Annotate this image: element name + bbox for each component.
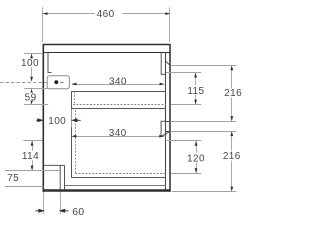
drawer 2 dashed bottom (75, 173, 166, 175)
handle pivot dot (54, 80, 58, 84)
dim 216 upper arrows (230, 66, 233, 71)
drawer 1 box top (71, 91, 166, 93)
dim 216 lower arrows (230, 132, 233, 137)
dim 59 extensions (24, 89, 48, 105)
dim 100 top line (31, 54, 33, 82)
dim 216 upper line (231, 66, 233, 121)
handle element (47, 76, 69, 89)
dim 460 line (43, 13, 170, 15)
back panel groove legs (44, 165, 65, 189)
dim 59 line (31, 89, 33, 104)
dim 340 upper line (72, 84, 164, 86)
svg-text:114: 114 (22, 151, 39, 162)
svg-text:460: 460 (97, 9, 115, 20)
drawer 1 dashed bottom (73, 104, 166, 106)
drawer 2 dashed side panel (75, 110, 77, 174)
drawer 1 front chamfer (166, 61, 170, 65)
drawer 2 box top rail (71, 108, 166, 110)
cabinet top panel (43, 45, 171, 53)
svg-text:100: 100 (48, 116, 66, 127)
drawer 2 front chamfer (162, 131, 171, 136)
svg-text:340: 340 (109, 77, 127, 88)
dim 114 arrows (31, 141, 34, 146)
dim 120 arrows (195, 141, 198, 146)
dim 340 lower arrows (72, 135, 77, 138)
dim 216 lower bottom extension (172, 191, 236, 193)
dim 60 extensions (44, 192, 61, 213)
drawer 1 dashed side panel (74, 91, 76, 104)
dim 59 arrows (30, 89, 32, 93)
dim 340 upper arrows (72, 83, 77, 86)
bottom panel top face line (65, 185, 166, 187)
dim 120 line (196, 141, 198, 173)
svg-text:75: 75 (7, 173, 19, 184)
drawer 2 box bottom (71, 177, 166, 179)
drawer front back face line (165, 53, 167, 190)
dim 115 extensions (166, 73, 201, 105)
svg-text:60: 60 (72, 207, 84, 218)
dim 216 lower top extension (171, 131, 237, 133)
dim 115 arrows (194, 73, 197, 78)
dim 460 arrows (43, 12, 48, 15)
dim 115 line (195, 73, 197, 104)
cabinet right wall (169, 44, 171, 192)
left side panel inner edge (48, 53, 52, 73)
svg-text:120: 120 (187, 153, 205, 164)
drawer 1 front bottom edge (166, 121, 171, 123)
drawer 1 handle channel (161, 53, 166, 75)
dim 120 extensions (167, 141, 202, 174)
drawer 2 handle channel (161, 121, 166, 136)
dim 60 arrows (35, 209, 43, 212)
dim 216 lower line (231, 132, 233, 192)
dim 114 bottom extension (5, 170, 60, 172)
dim 100 lower arrows (36, 119, 42, 122)
centerline dashed (0, 82, 47, 84)
svg-text:59: 59 (25, 93, 37, 104)
drawer boxes back vertical (71, 91, 73, 177)
dim 100 top extension (24, 53, 43, 55)
svg-text:216: 216 (224, 88, 242, 99)
svg-text:216: 216 (223, 151, 241, 162)
handle centerline tick (60, 82, 63, 84)
dim 100 lower extension (71, 109, 73, 127)
dim 340 lower line (72, 136, 164, 138)
dim 114 top extension (23, 140, 42, 142)
dim 114 line (32, 141, 34, 170)
cabinet bottom panel (43, 189, 171, 191)
dim 216 upper extension (171, 65, 237, 67)
dim 75 bottom extension (5, 186, 43, 188)
svg-text:100: 100 (21, 58, 39, 69)
dim 100 top arrows (30, 54, 33, 59)
svg-text:340: 340 (109, 128, 127, 139)
dim 460 extension lines (43, 7, 170, 42)
drawer 2 front top edge (166, 131, 171, 133)
cabinet left wall (42, 44, 44, 192)
svg-text:115: 115 (187, 86, 204, 97)
dim 216 upper ext bottom (171, 121, 237, 123)
